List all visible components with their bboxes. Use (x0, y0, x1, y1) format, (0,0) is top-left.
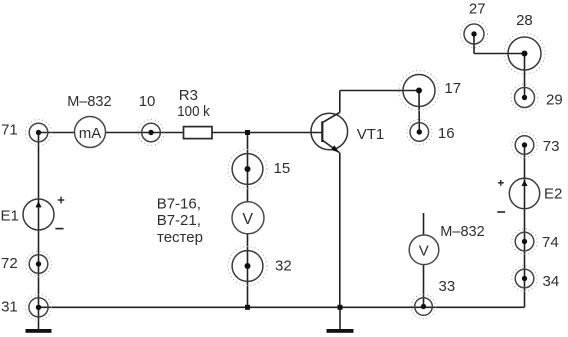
svg-text:тестер: тестер (157, 229, 203, 246)
svg-text:29: 29 (546, 91, 563, 108)
node 10 (138, 120, 164, 146)
source E1 (23, 199, 54, 230)
ammeter mA M-832 (75, 117, 106, 148)
wire node 27 down (473, 34, 475, 54)
svg-text:16: 16 (438, 125, 455, 142)
wire left ground stub (38, 307, 40, 329)
svg-text:17: 17 (444, 80, 461, 97)
wire node 17 to node 16 (418, 91, 420, 133)
wire right column (bus up through 34 74 E2 to node 73) (524, 145, 526, 307)
wire bottom bus (39, 306, 525, 308)
node 16 (407, 119, 432, 144)
svg-text:100 k: 100 k (177, 103, 210, 120)
svg-text:15: 15 (274, 160, 291, 177)
wire node 28 to node 29 (524, 54, 526, 98)
node 74 (512, 229, 537, 254)
wire resistor R3 to transistor base (212, 132, 323, 134)
voltmeter V middle (232, 202, 264, 234)
svg-text:73: 73 (543, 138, 560, 155)
svg-text:74: 74 (542, 234, 559, 251)
wire node 27 to node 28 (474, 53, 525, 55)
resistor R3 (184, 127, 213, 139)
svg-text:mA: mA (79, 125, 102, 142)
node 15 (228, 150, 267, 189)
node 73 (512, 132, 537, 157)
wire middle ground stub (339, 307, 341, 329)
svg-text:R3: R3 (179, 87, 198, 104)
svg-text:E2: E2 (544, 185, 562, 202)
label minus E1 (55, 228, 63, 230)
label plus E1 (58, 197, 65, 204)
node 34 (512, 266, 537, 291)
wire emitter vertical (339, 153, 341, 308)
svg-text:72: 72 (1, 255, 18, 272)
svg-text:32: 32 (275, 258, 292, 275)
svg-text:28: 28 (516, 12, 533, 29)
svg-text:M–832: M–832 (440, 223, 484, 240)
svg-text:27: 27 (469, 0, 486, 17)
node 27 (461, 21, 488, 48)
node 29 (511, 84, 538, 111)
wire middle column lower (voltmeter to bottom bus) (247, 234, 249, 307)
svg-text:33: 33 (439, 278, 456, 295)
svg-text:M–832: M–832 (67, 93, 111, 110)
svg-text:71: 71 (1, 122, 18, 139)
node 28 (504, 33, 545, 74)
wire collector horizontal to node 17 (340, 90, 419, 92)
ground left bar (26, 329, 52, 333)
wire node71 to ammeter (39, 132, 75, 134)
wire middle column upper (junction to voltmeter) (247, 133, 249, 203)
label plus E2 (498, 180, 504, 186)
node 33 (411, 294, 435, 318)
ground middle bar (327, 329, 354, 333)
junction emitter on bus (338, 305, 343, 310)
source E2 (509, 178, 539, 208)
node 71 (26, 120, 52, 146)
wire collector vertical (339, 91, 341, 113)
node 17 (399, 71, 439, 111)
node 32 (228, 247, 267, 286)
label minus E2 (497, 211, 505, 213)
svg-text:V: V (419, 242, 429, 259)
svg-text:10: 10 (139, 93, 156, 110)
wire stub above bottom voltmeter (423, 213, 425, 235)
svg-text:В7-16,: В7-16, (157, 195, 201, 212)
transistor VT1 (311, 113, 348, 153)
node 72 (26, 251, 51, 276)
wire ammeter to resistor R3 through node 10 (106, 132, 184, 134)
svg-text:31: 31 (1, 298, 18, 315)
wire left column (node 71 down to node 31) (38, 133, 40, 308)
junction middle column on bus (245, 305, 250, 310)
svg-text:V: V (242, 211, 253, 228)
node 31 (26, 294, 52, 320)
svg-text:34: 34 (543, 273, 560, 290)
voltmeter V bottom M-832 (409, 235, 439, 265)
wire bottom voltmeter to node 33 (423, 265, 425, 307)
svg-text:VT1: VT1 (357, 126, 385, 143)
svg-text:E1: E1 (1, 208, 19, 225)
junction after R3 (245, 130, 250, 135)
svg-text:В7-21,: В7-21, (157, 212, 201, 229)
